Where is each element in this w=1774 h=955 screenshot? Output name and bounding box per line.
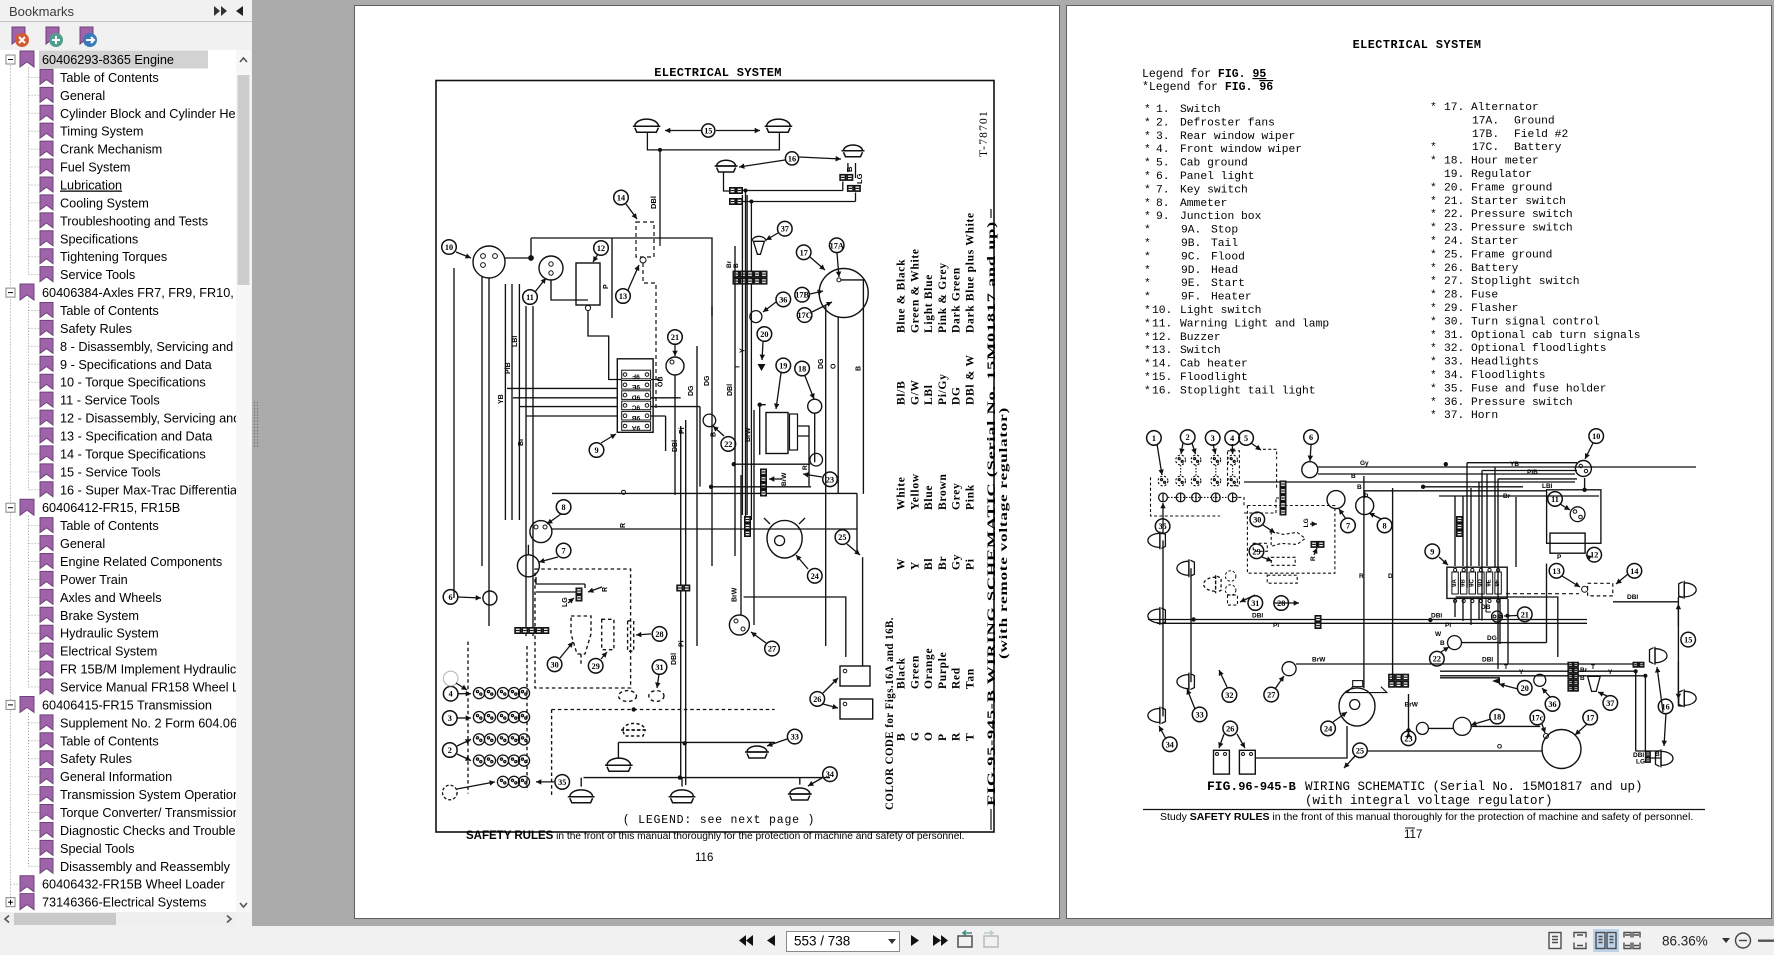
leader arrow xyxy=(1310,523,1317,525)
svg-text:4: 4 xyxy=(449,690,453,699)
svg-text:Safety Rules: Safety Rules xyxy=(60,322,132,336)
label circle 8 xyxy=(556,500,571,515)
svg-text:Flasher: Flasher xyxy=(1471,303,1518,315)
leader arrow xyxy=(588,587,602,592)
label circle 31 xyxy=(1248,596,1263,611)
svg-text:*: * xyxy=(1144,265,1151,277)
svg-text:Junction box: Junction box xyxy=(1180,211,1262,223)
svg-text:Optional floodlights: Optional floodlights xyxy=(1471,343,1607,355)
leader arrow xyxy=(1157,444,1162,475)
svg-text:10: 10 xyxy=(445,243,453,252)
svg-text:24: 24 xyxy=(811,572,819,581)
connector xyxy=(576,588,582,594)
svg-text:7.: 7. xyxy=(1156,184,1170,196)
cab heater 14 (dashed) xyxy=(636,222,654,257)
svg-text:*: * xyxy=(1144,104,1151,116)
panel light 6 xyxy=(1302,462,1318,478)
label circle 16 xyxy=(1658,699,1673,714)
svg-text:21.: 21. xyxy=(1444,196,1464,208)
svg-text:*: * xyxy=(1430,196,1437,208)
svg-text:34.: 34. xyxy=(1444,370,1464,382)
key switch 7 xyxy=(517,555,539,577)
label circle 21 xyxy=(668,330,683,345)
svg-text:Black: Black xyxy=(896,657,908,689)
svg-text:Warning Light and lamp: Warning Light and lamp xyxy=(1180,318,1329,330)
svg-text:Troubleshooting and Tests: Troubleshooting and Tests xyxy=(60,214,208,228)
connector xyxy=(854,185,860,191)
label circle 29 xyxy=(1249,544,1264,559)
svg-text:18: 18 xyxy=(798,365,806,374)
svg-text:17C.: 17C. xyxy=(1472,142,1499,154)
svg-text:*: * xyxy=(1144,171,1151,183)
label circle 9 xyxy=(589,443,604,458)
svg-text:Cylinder Block and Cylinder He: Cylinder Block and Cylinder Head xyxy=(60,107,236,121)
svg-text:4: 4 xyxy=(1230,434,1234,443)
svg-text:15.: 15. xyxy=(1152,372,1172,384)
junction box 9 xyxy=(617,359,653,433)
leader arrow xyxy=(456,683,467,690)
label circle 17c xyxy=(1530,710,1545,725)
leader arrow xyxy=(1159,726,1166,739)
leader arrow xyxy=(1542,688,1550,697)
svg-text:Starter switch: Starter switch xyxy=(1471,196,1566,208)
label circle 13 xyxy=(1549,564,1564,579)
connector xyxy=(1639,662,1644,667)
svg-text:*: * xyxy=(1430,383,1437,395)
svg-text:Stop: Stop xyxy=(1211,225,1238,237)
svg-text:Cab heater: Cab heater xyxy=(1180,359,1248,371)
svg-text:10.: 10. xyxy=(1152,305,1172,317)
label circle 10 xyxy=(1589,429,1604,444)
leader arrow xyxy=(1219,734,1224,748)
svg-text:20.: 20. xyxy=(1444,182,1464,194)
leader arrow xyxy=(1677,604,1679,626)
svg-text:1: 1 xyxy=(1152,434,1156,443)
svg-text:Brake System: Brake System xyxy=(60,609,139,623)
label circle 33 xyxy=(1192,707,1207,722)
svg-text:Rear window wiper: Rear window wiper xyxy=(1180,131,1295,143)
svg-text:Torque Converter/ Transmission: Torque Converter/ Transmission xyxy=(60,806,236,820)
light switch 10 xyxy=(473,246,505,278)
connector xyxy=(1568,668,1573,673)
svg-text:Fuel System: Fuel System xyxy=(60,161,131,175)
svg-text:BrW: BrW xyxy=(1405,702,1419,709)
svg-text:*: * xyxy=(1430,209,1437,221)
leader arrow xyxy=(1471,719,1491,725)
leader arrow xyxy=(751,632,766,643)
label circle 36 xyxy=(776,292,791,307)
label circle 11 xyxy=(523,290,538,305)
svg-text:Key switch: Key switch xyxy=(1180,184,1248,196)
svg-text:8: 8 xyxy=(1383,521,1387,530)
leader arrow xyxy=(810,291,823,294)
figure border xyxy=(436,81,994,833)
svg-text:23: 23 xyxy=(826,475,834,484)
svg-text:*: * xyxy=(1144,318,1151,330)
connector xyxy=(733,278,767,284)
svg-text:Stoplight switch: Stoplight switch xyxy=(1471,276,1579,288)
svg-text:4.: 4. xyxy=(1156,144,1170,156)
svg-text:9 - Specifications and Data: 9 - Specifications and Data xyxy=(60,358,213,372)
leader arrow xyxy=(657,674,659,688)
junction box 9 xyxy=(1447,567,1507,598)
svg-text:Brown: Brown xyxy=(937,473,949,510)
svg-text:Pi: Pi xyxy=(1445,622,1451,629)
svg-text:Axles and Wheels: Axles and Wheels xyxy=(60,591,162,605)
svg-text:Cooling System: Cooling System xyxy=(60,196,149,210)
label circle 17B xyxy=(795,287,810,302)
svg-text:Gy: Gy xyxy=(1360,460,1369,467)
svg-text:3: 3 xyxy=(1211,434,1215,443)
svg-text:Stoplight tail light: Stoplight tail light xyxy=(1180,385,1316,397)
svg-text:20: 20 xyxy=(1521,684,1529,693)
svg-text:2.: 2. xyxy=(1156,117,1170,129)
svg-text:P: P xyxy=(1557,554,1562,561)
svg-text:7: 7 xyxy=(1346,521,1350,530)
label circle 24 xyxy=(808,569,823,584)
leader arrow xyxy=(837,253,839,277)
connector xyxy=(1573,662,1578,667)
leader arrow xyxy=(458,597,481,598)
label circle 32 xyxy=(1222,688,1237,703)
svg-text:17c: 17c xyxy=(1531,714,1543,723)
lamp xyxy=(715,160,738,172)
label circle 21 xyxy=(1518,607,1533,622)
svg-text:Fuse: Fuse xyxy=(1471,290,1498,302)
svg-text:33: 33 xyxy=(1196,710,1204,719)
svg-text:9C.: 9C. xyxy=(1181,251,1201,263)
svg-text:LG: LG xyxy=(855,173,864,184)
lamp xyxy=(788,788,812,800)
label circle 4 xyxy=(443,686,458,701)
leader arrow xyxy=(796,555,808,569)
hour meter 18 xyxy=(1453,717,1471,735)
svg-text:Table of Contents: Table of Contents xyxy=(60,71,159,85)
svg-text:9E.: 9E. xyxy=(1181,278,1201,290)
leader arrow xyxy=(1213,444,1216,454)
leader arrow xyxy=(457,754,471,761)
svg-text:22.: 22. xyxy=(1444,209,1464,221)
connector xyxy=(733,271,767,277)
leader arrow xyxy=(810,257,825,270)
svg-text:*: * xyxy=(1144,345,1151,357)
label circle 34 xyxy=(823,767,838,782)
label circle 1 xyxy=(1147,431,1162,446)
svg-text:Engine Related Components: Engine Related Components xyxy=(60,555,222,569)
leader arrow xyxy=(1664,713,1666,746)
svg-text:B: B xyxy=(1440,640,1445,647)
leader arrow xyxy=(1333,712,1347,722)
svg-text:W: W xyxy=(896,558,908,570)
svg-text:14: 14 xyxy=(617,194,625,203)
svg-text:27: 27 xyxy=(1267,691,1275,700)
svg-text:9C: 9C xyxy=(632,404,641,411)
leader arrow xyxy=(1657,667,1663,712)
leader arrow xyxy=(458,693,471,695)
lamp xyxy=(605,758,633,771)
svg-text:3: 3 xyxy=(448,714,452,723)
svg-text:Floodlights: Floodlights xyxy=(1471,370,1546,382)
svg-text:DB: DB xyxy=(1481,604,1491,611)
leader arrow xyxy=(457,717,471,719)
svg-text:18: 18 xyxy=(1493,713,1501,722)
svg-text:Battery: Battery xyxy=(1514,142,1562,154)
svg-text:T: T xyxy=(735,364,742,369)
starter 24 xyxy=(767,520,802,558)
leader arrow xyxy=(808,778,822,786)
svg-text:6: 6 xyxy=(448,593,452,602)
svg-text:9B: 9B xyxy=(632,414,641,421)
svg-text:R: R xyxy=(951,732,963,741)
svg-text:DBl: DBl xyxy=(1252,613,1263,620)
label circle 10 xyxy=(442,240,457,255)
connector xyxy=(1568,680,1573,685)
svg-text:Specifications: Specifications xyxy=(60,232,138,246)
label circle 23 xyxy=(823,472,838,487)
leader arrow xyxy=(1275,676,1284,689)
flasher 29 (dashed) xyxy=(602,619,614,649)
lamp xyxy=(568,790,595,803)
svg-text:Safety Rules: Safety Rules xyxy=(60,752,132,766)
leader arrow xyxy=(716,130,760,132)
svg-text:Hour meter: Hour meter xyxy=(1471,156,1539,168)
connector xyxy=(1645,751,1650,756)
svg-text:LG: LG xyxy=(562,597,569,607)
label circle 35 xyxy=(1155,519,1170,534)
leader arrow xyxy=(539,557,558,562)
connector xyxy=(1280,488,1286,494)
svg-text:Br: Br xyxy=(1503,493,1511,500)
label circle 2 xyxy=(1180,430,1195,445)
svg-text:BrW: BrW xyxy=(731,587,738,602)
svg-text:*: * xyxy=(1430,343,1437,355)
svg-text:*: * xyxy=(1144,372,1151,384)
svg-text:18.: 18. xyxy=(1444,156,1464,168)
svg-text:B: B xyxy=(896,733,908,741)
label circle 28 xyxy=(1274,596,1289,611)
svg-text:26.: 26. xyxy=(1444,263,1464,275)
leader arrow xyxy=(1408,732,1410,736)
label circle 34 xyxy=(1163,737,1178,752)
connector xyxy=(1633,662,1638,667)
svg-text:Tightening Torques: Tightening Torques xyxy=(60,250,167,264)
svg-text:Start: Start xyxy=(1211,278,1245,290)
svg-text:12.: 12. xyxy=(1152,332,1172,344)
leader arrow xyxy=(560,642,573,658)
svg-text:O: O xyxy=(923,731,935,741)
svg-text:31: 31 xyxy=(1251,599,1259,608)
label circle 20 xyxy=(1517,681,1532,696)
connector xyxy=(515,628,549,634)
svg-text:9B.: 9B. xyxy=(1181,238,1201,250)
svg-text:DG: DG xyxy=(704,375,711,386)
svg-text:Blue & Black: Blue & Black xyxy=(896,259,908,333)
svg-text:37.: 37. xyxy=(1444,410,1464,422)
connector xyxy=(847,185,853,191)
leader arrow xyxy=(636,634,651,635)
svg-text:T: T xyxy=(965,733,977,741)
svg-text:Supplement No. 2 Form 604.06: Supplement No. 2 Form 604.06 xyxy=(60,716,236,730)
svg-text:*Legend for FIG. 96: *Legend for FIG. 96 xyxy=(1142,81,1273,94)
svg-text:23.: 23. xyxy=(1444,223,1464,235)
svg-text:(with remote voltage regulator: (with remote voltage regulator) xyxy=(996,407,1010,659)
svg-text:B: B xyxy=(733,263,740,268)
connector xyxy=(1389,674,1409,680)
svg-text:Fuse and fuse holder: Fuse and fuse holder xyxy=(1471,383,1607,395)
svg-text:60406412-FR15, FR15B: 60406412-FR15, FR15B xyxy=(42,501,180,515)
svg-text:Disassembly and Reassembly: Disassembly and Reassembly xyxy=(60,860,231,874)
label circle 36 xyxy=(1545,697,1560,712)
svg-text:9C: 9C xyxy=(1469,578,1475,586)
leader arrow xyxy=(766,233,778,240)
pressure switch 36 xyxy=(1534,674,1546,686)
svg-text:D: D xyxy=(1388,573,1393,580)
svg-text:Green & White: Green & White xyxy=(909,248,921,333)
svg-text:Table of Contents: Table of Contents xyxy=(60,304,159,318)
label circle 4 xyxy=(1225,431,1240,446)
svg-text:2: 2 xyxy=(448,746,452,755)
svg-text:DBl: DBl xyxy=(1482,657,1493,664)
svg-text:PiB: PiB xyxy=(505,362,512,374)
svg-text:SAFETY RULES in the front of t: SAFETY RULES in the front of this manual… xyxy=(466,830,964,842)
svg-text:17.: 17. xyxy=(1444,102,1464,114)
svg-text:14: 14 xyxy=(1630,567,1638,576)
svg-text:OB: OB xyxy=(658,377,665,388)
svg-text:Purple: Purple xyxy=(937,652,949,689)
leader arrow xyxy=(1219,670,1227,687)
svg-text:B: B xyxy=(1351,473,1356,480)
svg-text:34: 34 xyxy=(826,770,834,779)
svg-text:*: * xyxy=(1144,198,1151,210)
svg-text:General: General xyxy=(60,537,105,551)
svg-text:P: P xyxy=(937,733,949,741)
svg-text:B: B xyxy=(1655,751,1660,758)
svg-text:Ground: Ground xyxy=(1514,115,1555,127)
svg-text:Alternator: Alternator xyxy=(1471,102,1539,114)
leader arrow xyxy=(1344,756,1355,768)
svg-text:*: * xyxy=(1144,211,1151,223)
connector xyxy=(1280,502,1286,508)
svg-text:25: 25 xyxy=(1356,746,1364,755)
frame ground 20 xyxy=(758,364,766,371)
svg-text:22: 22 xyxy=(1433,655,1441,664)
svg-text:Flood: Flood xyxy=(1211,251,1245,263)
leader arrow xyxy=(1187,689,1195,709)
svg-text:Study SAFETY RULES in the fron: Study SAFETY RULES in the front of this … xyxy=(1160,811,1693,823)
label circle 7 xyxy=(556,543,571,558)
svg-text:25: 25 xyxy=(838,533,846,542)
svg-text:Lubrication: Lubrication xyxy=(60,179,122,193)
svg-text:Light Blue: Light Blue xyxy=(923,274,935,333)
leader arrow xyxy=(1192,443,1196,454)
svg-text:19.: 19. xyxy=(1444,169,1464,181)
connector xyxy=(1568,662,1573,667)
label circle 19 xyxy=(776,358,791,373)
svg-text:*: * xyxy=(1430,276,1437,288)
svg-text:LG: LG xyxy=(1636,759,1645,766)
connector xyxy=(761,476,767,482)
label circle 35 xyxy=(555,775,570,790)
svg-text:B: B xyxy=(1580,675,1585,682)
svg-text:12: 12 xyxy=(597,244,605,253)
svg-text:Field #2: Field #2 xyxy=(1514,129,1568,141)
leader arrow xyxy=(805,376,814,399)
svg-text:10: 10 xyxy=(1592,432,1600,441)
svg-text:T-78701: T-78701 xyxy=(978,110,990,157)
svg-text:Hydraulic System: Hydraulic System xyxy=(60,627,159,641)
svg-text:13 - Specification and Data: 13 - Specification and Data xyxy=(60,430,213,444)
svg-text:3.: 3. xyxy=(1156,131,1170,143)
lamp xyxy=(633,119,661,132)
leader arrow xyxy=(1575,724,1587,735)
svg-text:General Information: General Information xyxy=(60,770,172,784)
svg-text:( LEGEND: see next page ): ( LEGEND: see next page ) xyxy=(623,814,816,827)
leader arrow xyxy=(674,344,676,356)
svg-text:24.: 24. xyxy=(1444,236,1464,248)
svg-text:B: B xyxy=(1357,484,1362,491)
svg-text:17A: 17A xyxy=(830,241,844,250)
svg-text:Pressure switch: Pressure switch xyxy=(1471,223,1573,235)
svg-text:B: B xyxy=(711,432,718,437)
leader arrow xyxy=(456,252,471,258)
leader arrow xyxy=(1441,647,1449,652)
svg-text:Frame ground: Frame ground xyxy=(1471,182,1552,194)
svg-text:O: O xyxy=(621,489,628,495)
svg-text:9B: 9B xyxy=(1461,578,1467,586)
svg-text:9F: 9F xyxy=(632,373,640,380)
connector xyxy=(1568,686,1573,691)
label circle 15 xyxy=(702,124,715,137)
label circle 33 xyxy=(787,729,802,744)
svg-text:17B: 17B xyxy=(795,291,809,300)
svg-text:16 - Super Max-Trac Differenti: 16 - Super Max-Trac Differential xyxy=(60,483,236,497)
svg-text:Front window wiper: Front window wiper xyxy=(1180,144,1302,156)
svg-text:R: R xyxy=(802,465,809,470)
svg-text:Pi: Pi xyxy=(679,427,686,434)
leader arrow xyxy=(547,514,561,524)
connector xyxy=(761,483,767,489)
leader arrow xyxy=(1162,503,1164,534)
leader arrow xyxy=(665,130,701,132)
svg-text:R: R xyxy=(1310,556,1317,561)
svg-text:Buzzer: Buzzer xyxy=(1180,332,1221,344)
svg-text:DBl: DBl xyxy=(672,440,679,452)
label circle 37 xyxy=(1603,696,1618,711)
leader arrow xyxy=(1231,444,1233,454)
svg-text:9E: 9E xyxy=(631,383,640,390)
leader arrow xyxy=(823,678,838,693)
svg-text:Y: Y xyxy=(1608,669,1613,676)
starter switch 21 xyxy=(1492,611,1503,622)
svg-text:BrW: BrW xyxy=(745,427,752,442)
svg-text:*: * xyxy=(1144,305,1151,317)
connector xyxy=(576,595,582,601)
lamp xyxy=(745,746,769,758)
label circle 3 xyxy=(443,711,458,726)
svg-text:27.: 27. xyxy=(1444,276,1464,288)
svg-text:W: W xyxy=(1435,631,1442,638)
connector xyxy=(745,517,751,523)
svg-text:11: 11 xyxy=(526,293,534,302)
leader arrow xyxy=(799,157,841,159)
svg-text:FR 15B/M Implement Hydraulic S: FR 15B/M Implement Hydraulic S xyxy=(60,663,236,677)
svg-text:Pink & Grey: Pink & Grey xyxy=(937,262,949,333)
label circle 6 xyxy=(1304,430,1319,445)
connector xyxy=(730,188,736,194)
battery 26 xyxy=(1214,750,1230,774)
svg-text:*: * xyxy=(1430,249,1437,261)
svg-text:28.: 28. xyxy=(1444,290,1464,302)
